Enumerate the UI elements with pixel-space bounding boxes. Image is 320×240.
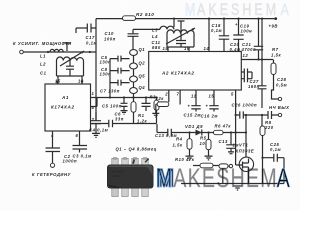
capacitor C24 pin bbox=[241, 60, 262, 86]
svg-text:5: 5 bbox=[92, 105, 95, 110]
wire VT1 drain bbox=[245, 115, 247, 157]
svg-text:А1: А1 bbox=[61, 95, 69, 100]
svg-text:M: M bbox=[185, 1, 195, 19]
svg-text:К174ХА2: К174ХА2 bbox=[111, 170, 124, 174]
svg-text:Q1 – Q4 8,86мгц: Q1 – Q4 8,86мгц bbox=[116, 147, 157, 152]
svg-text:AKESHEM: AKESHEM bbox=[197, 1, 279, 19]
svg-text:+9В: +9В bbox=[269, 24, 278, 29]
capacitor C1 bbox=[66, 61, 74, 77]
svg-text:L2: L2 bbox=[40, 62, 46, 67]
crystal Q4 bbox=[130, 88, 138, 94]
ground bus bbox=[181, 183, 284, 185]
svg-text:С1: С1 bbox=[40, 71, 47, 76]
capacitor C7 bbox=[110, 80, 130, 86]
svg-text:6: 6 bbox=[76, 133, 79, 138]
svg-text:1,5к: 1,5к bbox=[173, 142, 183, 147]
svg-text:К ГЕТЕРОДИНУ: К ГЕТЕРОДИНУ bbox=[32, 172, 72, 177]
svg-text:0,1м: 0,1м bbox=[86, 40, 97, 45]
svg-text:33п: 33п bbox=[115, 117, 124, 122]
svg-text:0,1м: 0,1м bbox=[211, 28, 222, 33]
svg-text:14: 14 bbox=[204, 46, 210, 51]
capacitor C27 bbox=[258, 86, 267, 108]
capacitor C4 bbox=[91, 112, 101, 133]
svg-text:С13: С13 bbox=[219, 139, 228, 144]
svg-text:+: + bbox=[188, 104, 191, 109]
watermark MAKESHEMA bottom bbox=[156, 164, 290, 194]
svg-text:12: 12 bbox=[243, 53, 249, 58]
resistor R2 bbox=[123, 16, 136, 21]
capacitor C19 bbox=[233, 19, 243, 52]
wire left vertical bbox=[95, 19, 97, 121]
svg-text:4700п: 4700п bbox=[241, 47, 257, 52]
svg-text:С10: С10 bbox=[105, 31, 114, 36]
capacitor C17 bbox=[76, 24, 96, 34]
wire input bbox=[23, 51, 96, 53]
svg-text:A: A bbox=[277, 164, 290, 194]
svg-text:Q2: Q2 bbox=[139, 61, 146, 66]
svg-text:+: + bbox=[206, 104, 209, 109]
capacitor C18 bbox=[219, 19, 229, 52]
wire bbox=[133, 82, 135, 88]
svg-text:2: 2 bbox=[164, 92, 168, 97]
capacitor C10 bbox=[128, 29, 161, 49]
capacitor C8 bbox=[110, 68, 130, 74]
wire cap rail bbox=[109, 59, 111, 98]
IC chip photo bbox=[107, 157, 154, 196]
wire bbox=[133, 69, 135, 76]
svg-text:0,1м: 0,1м bbox=[270, 147, 281, 152]
svg-text:КП303Е: КП303Е bbox=[236, 149, 255, 154]
transformer T1 L2 bbox=[57, 57, 84, 60]
trimmer arrow bbox=[166, 28, 195, 44]
svg-text:С28: С28 bbox=[277, 77, 286, 82]
wire top bus bbox=[96, 18, 277, 20]
capacitor C12 bbox=[142, 98, 151, 112]
svg-text:L1: L1 bbox=[40, 54, 46, 59]
svg-text:15: 15 bbox=[55, 79, 61, 84]
svg-text:С13 0,3м: С13 0,3м bbox=[155, 133, 178, 138]
svg-text:0,5м: 0,5м bbox=[276, 83, 287, 88]
svg-text:16: 16 bbox=[78, 79, 84, 84]
svg-text:AKESHEM: AKESHEM bbox=[173, 164, 278, 194]
wire A1 pin1 bbox=[90, 97, 157, 99]
node output 2 terminal bbox=[278, 113, 281, 116]
wire pins to A1 bbox=[58, 76, 82, 84]
svg-text:16: 16 bbox=[184, 46, 190, 51]
svg-text:С4 0,1м: С4 0,1м bbox=[89, 128, 109, 133]
svg-text:1,2к: 1,2к bbox=[137, 119, 147, 124]
svg-text:0,4м: 0,4м bbox=[230, 47, 241, 52]
capacitor C11 bbox=[176, 34, 186, 48]
svg-text:R1: R1 bbox=[138, 113, 145, 118]
svg-text:Q4: Q4 bbox=[139, 85, 146, 90]
svg-text:R5: R5 bbox=[200, 136, 207, 141]
svg-text:С3 0,1м: С3 0,1м bbox=[73, 153, 93, 158]
svg-text:L4: L4 bbox=[152, 34, 158, 39]
resistor R1 bbox=[131, 102, 136, 113]
inductor L1 bbox=[50, 49, 63, 52]
svg-text:НЧ ВЫХ: НЧ ВЫХ bbox=[269, 105, 289, 110]
svg-text:100п: 100п bbox=[104, 36, 116, 41]
crystal Q3 bbox=[130, 76, 138, 82]
trimmer arrow bbox=[60, 51, 84, 66]
crystal Q1 bbox=[130, 50, 138, 56]
svg-text:1: 1 bbox=[92, 91, 95, 96]
svg-text:С15 2м: С15 2м bbox=[184, 112, 202, 117]
svg-text:А2 К174ХА2: А2 К174ХА2 bbox=[161, 71, 195, 76]
op-amp A1 bbox=[45, 84, 91, 131]
capacitor C5 bbox=[110, 56, 130, 62]
svg-text:15: 15 bbox=[163, 46, 169, 51]
node input junction bbox=[47, 51, 49, 53]
svg-text:R2 510: R2 510 bbox=[136, 12, 154, 17]
op-amp A2 bbox=[149, 52, 242, 91]
node output 1 terminal bbox=[278, 97, 281, 100]
svg-text:A: A bbox=[281, 1, 289, 19]
capacitor C21 bbox=[254, 19, 263, 60]
svg-text:R6 47к: R6 47к bbox=[215, 123, 232, 128]
svg-text:L3: L3 bbox=[152, 28, 158, 33]
svg-text:5: 5 bbox=[231, 92, 234, 97]
svg-text:1000п: 1000п bbox=[63, 159, 78, 164]
crystal Q2 bbox=[130, 63, 138, 69]
svg-text:R7: R7 bbox=[272, 47, 279, 52]
svg-text:С16 2м: С16 2м bbox=[201, 114, 219, 119]
svg-text:100н: 100н bbox=[241, 29, 253, 34]
capacitor C25 bbox=[261, 157, 263, 159]
svg-text:68п: 68п bbox=[152, 45, 161, 50]
watermark MAKESHEMA top bbox=[185, 1, 289, 19]
+9V terminal bbox=[274, 17, 277, 20]
transformer tank L4 C11 bbox=[167, 30, 194, 34]
svg-text:+: + bbox=[235, 22, 238, 27]
wire tank pins bbox=[168, 19, 209, 52]
svg-text:R4: R4 bbox=[176, 137, 183, 142]
svg-text:160п: 160п bbox=[248, 84, 260, 89]
ground bbox=[92, 133, 100, 137]
svg-text:С17: С17 bbox=[86, 35, 95, 40]
node геteродин terminal bbox=[50, 163, 54, 167]
input terminal bbox=[20, 50, 24, 54]
svg-text:22к: 22к bbox=[155, 96, 165, 101]
wire A2 right pin bbox=[261, 19, 263, 60]
svg-text:VT1: VT1 bbox=[239, 143, 248, 148]
svg-text:9052А: 9052А bbox=[111, 174, 121, 178]
svg-text:Q1: Q1 bbox=[139, 47, 146, 52]
node bus junctions bbox=[173, 18, 175, 20]
svg-text:С5 100п: С5 100п bbox=[102, 103, 122, 108]
svg-text:M: M bbox=[156, 164, 172, 194]
trimmer core mark bbox=[63, 43, 71, 51]
svg-text:VD1 Д9: VD1 Д9 bbox=[185, 124, 203, 129]
svg-text:К174ХА2: К174ХА2 bbox=[51, 105, 75, 110]
capacitor C22 output2 bbox=[262, 111, 278, 119]
svg-text:1,5к: 1,5к bbox=[271, 52, 281, 57]
svg-text:R10 47к: R10 47к bbox=[175, 157, 195, 162]
wire bbox=[133, 56, 135, 64]
svg-text:7: 7 bbox=[177, 92, 180, 97]
inductor L3 bbox=[173, 19, 175, 27]
svg-text:Q5: Q5 bbox=[139, 74, 146, 79]
